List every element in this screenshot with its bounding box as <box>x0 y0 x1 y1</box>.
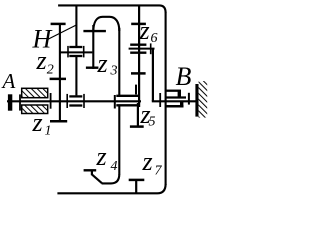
svg-text:7: 7 <box>155 164 163 179</box>
gear z4 stem <box>91 170 93 175</box>
B hub upper leg <box>178 91 181 99</box>
B hub left tick <box>159 93 161 107</box>
svg-text:z: z <box>97 49 108 78</box>
gear z1 bottom cap <box>50 120 67 123</box>
svg-text:B: B <box>176 62 192 91</box>
pin1 hub bottom cap <box>69 55 82 57</box>
mesh cap z1-z2 <box>50 78 66 81</box>
shaft A end bar <box>8 94 12 110</box>
gear z7 cap <box>129 179 145 182</box>
carrier main-axis hub top cap <box>69 95 82 97</box>
pin1 hub right tick <box>83 46 85 58</box>
H leader line <box>47 25 77 40</box>
bell hub tick <box>114 95 116 109</box>
bearing A upper hatched block <box>22 88 48 97</box>
gear z6/z5 radial line <box>138 5 140 107</box>
pin1 hub top cap <box>69 46 82 48</box>
planet pin 2 axis <box>129 48 155 50</box>
carrier H arm upper (rail to pin1) <box>75 5 77 46</box>
gear z4 cap <box>84 169 97 171</box>
bell right wall upper <box>118 28 120 96</box>
pin2 hub bottom cap <box>130 52 146 54</box>
main hub right tick <box>83 94 85 108</box>
svg-text:A: A <box>1 69 16 93</box>
bearing A left tick <box>19 94 21 110</box>
bearing A lower hatched block <box>22 105 48 114</box>
pin2 hub top cap <box>130 44 146 46</box>
gear z2 top cap <box>51 23 66 26</box>
wall B border <box>195 84 198 117</box>
wall B hatch <box>199 81 208 118</box>
svg-text:z: z <box>142 147 153 176</box>
gear z7 stem <box>135 180 137 193</box>
svg-text:2: 2 <box>47 63 54 78</box>
bearing A right tick <box>50 93 52 109</box>
svg-text:z: z <box>36 46 47 75</box>
B hub second bar <box>166 96 186 98</box>
bell bottom hook arc to z4 <box>92 174 102 183</box>
B hub right tick <box>188 93 190 105</box>
svg-text:z: z <box>139 16 150 45</box>
ring gear bell arch <box>93 17 119 32</box>
carrier main-axis hub bottom cap <box>69 104 82 106</box>
carrier right wall <box>165 12 167 185</box>
svg-text:z: z <box>96 142 107 171</box>
shaft A-B centerline <box>7 100 141 102</box>
mesh cap z5-z6 <box>131 72 146 75</box>
pin2 right tick <box>150 43 152 54</box>
pin2 support bracket vertical <box>152 49 154 102</box>
B hub bottom bar <box>166 105 184 108</box>
gear z1/z2 common radial line <box>59 24 61 121</box>
gear z3 top cap (ring mesh) <box>83 30 106 32</box>
svg-text:z: z <box>32 108 43 137</box>
bell hub lower bar <box>116 104 139 106</box>
carrier bottom corner and rail <box>57 184 165 193</box>
svg-text:3: 3 <box>110 64 118 79</box>
gear z5 bottom cap <box>130 125 144 128</box>
B hub lower leg <box>180 101 183 107</box>
bell inner wall upper <box>135 85 137 95</box>
svg-text:6: 6 <box>151 31 158 46</box>
svg-text:4: 4 <box>111 159 118 174</box>
gear z3 bottom cap <box>86 66 99 68</box>
bell left wall lower <box>118 106 120 175</box>
B hub top bar <box>166 90 181 92</box>
svg-text:1: 1 <box>45 124 52 139</box>
gear z5 lower stem <box>137 103 139 127</box>
svg-text:5: 5 <box>149 115 156 130</box>
gear z3 radial line <box>92 25 94 69</box>
shaft B line <box>152 100 196 102</box>
main hub left tick <box>66 94 68 108</box>
carrier top rail <box>58 5 166 12</box>
gear z6 top cap <box>131 23 146 26</box>
bell hub upper bar <box>116 95 139 97</box>
carrier H arm lower (pin1 to main hub) <box>75 57 77 95</box>
pin1 hub left tick <box>67 46 69 58</box>
bell bottom corner <box>102 174 120 183</box>
planet pin 1 axis <box>59 51 92 53</box>
